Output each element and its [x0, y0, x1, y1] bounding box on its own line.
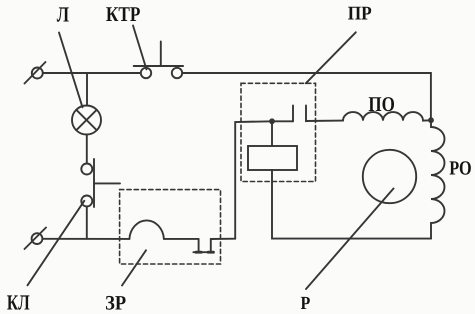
- svg-text:РО: РО: [449, 158, 472, 180]
- wire: lamp branch drop from top wire: [86, 73, 88, 106]
- wire: X2 to thermal bump: [42, 238, 129, 240]
- contact KTP bridge bar: [134, 65, 183, 67]
- svg-text:КТР: КТР: [106, 2, 141, 26]
- relay coil PR (rectangle): [248, 146, 297, 170]
- motor R (circle): [363, 150, 416, 203]
- leader line for label L: [59, 33, 83, 108]
- wire: door switch down to bottom wire: [86, 207, 88, 239]
- contact KL actuator stem: [94, 182, 120, 184]
- leader line for label ZR: [122, 250, 146, 285]
- dashed enclosure ZR: [120, 190, 221, 264]
- wire: dot to left contact plate: [272, 120, 293, 122]
- contact KL bridge bar: [93, 159, 95, 207]
- svg-text:Л: Л: [57, 3, 69, 27]
- node: junction dot PR: [269, 118, 275, 124]
- ZR thermal element bump: [129, 220, 164, 238]
- dashed enclosure PR: [241, 83, 316, 181]
- contact KTP actuator stem: [160, 42, 162, 67]
- wire: lamp bottom to door switch: [86, 135, 88, 164]
- ZR contact notch: [193, 239, 213, 252]
- leader line for label KTP: [133, 26, 147, 70]
- PR contact right plate: [305, 106, 307, 122]
- leader line for label PR: [306, 32, 356, 83]
- wire: bump to notch: [164, 238, 199, 240]
- PR contact left plate: [292, 106, 294, 122]
- wire: right plate to PO coil: [306, 120, 343, 122]
- wire: riser up to PR coil feed: [235, 121, 272, 238]
- inductor RO (run winding): [431, 120, 445, 238]
- contact KL upper circle: [81, 164, 92, 175]
- node B junction dot: [428, 117, 434, 123]
- svg-text:ПР: ПР: [348, 4, 372, 25]
- wire: dot down to coil: [271, 121, 273, 146]
- svg-text:Р: Р: [301, 294, 311, 314]
- contact KTP left circle: [141, 68, 151, 78]
- svg-text:ПО: ПО: [368, 92, 395, 116]
- contact KTP right circle: [172, 68, 182, 78]
- terminal X1 (top left plug): [25, 62, 46, 84]
- terminal X2 (bottom left plug): [25, 228, 47, 250]
- leader line for label KL: [28, 201, 85, 285]
- wire: X1 to KTP left contact: [43, 72, 141, 74]
- wire: coil bottom down and right along bottom: [272, 170, 431, 239]
- svg-text:КЛ: КЛ: [7, 291, 30, 314]
- wire: notch to riser corner: [211, 238, 235, 240]
- svg-text:ЗР: ЗР: [105, 293, 126, 314]
- inductor PO (start winding): [343, 112, 431, 121]
- wire: KTP to top right corner, down to node B: [182, 73, 431, 120]
- leader line for label R: [306, 189, 394, 290]
- contact KL lower circle: [81, 196, 92, 207]
- lamp L (circle with X): [72, 106, 101, 135]
